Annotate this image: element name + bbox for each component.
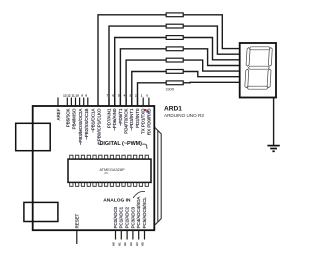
svg-text:~PD3/INT1: ~PD3/INT1 (129, 108, 134, 130)
Arduino ARD1 body (33, 106, 155, 230)
TX RX arrow marks (144, 109, 147, 111)
wire: resistor R5 to 7-seg display pin 5 (183, 60, 240, 71)
7-segment display box (240, 43, 276, 98)
power jack outline (24, 202, 58, 221)
wire: resistor R2 to 7-seg display pin 2 (183, 26, 240, 54)
RESET pin stub (76, 230, 78, 244)
wire: resistor R4 to 7-seg display pin 4 (183, 49, 240, 66)
svg-text:A0: A0 (112, 242, 116, 246)
svg-text:A5: A5 (141, 242, 145, 246)
svg-text:TX PD1/TXD: TX PD1/TXD (141, 109, 146, 134)
microcontroller IC body (68, 159, 151, 182)
svg-text:~PD6/AIN0: ~PD6/AIN0 (112, 108, 117, 131)
svg-text:~PB1/OC1A: ~PB1/OC1A (91, 109, 96, 133)
svg-text:ARDUINO UNO R3: ARDUINO UNO R3 (164, 113, 204, 118)
svg-text:~PD5/T1: ~PD5/T1 (118, 108, 123, 126)
svg-text:PC2/ADC2: PC2/ADC2 (125, 206, 130, 228)
svg-text:330R: 330R (166, 87, 175, 91)
resistor R6 330R (166, 70, 183, 74)
svg-text:ARD1: ARD1 (164, 105, 182, 112)
IC pin teeth top (70, 155, 149, 159)
svg-text:PD2/INT0: PD2/INT0 (135, 108, 140, 128)
analog pin numbers A0..A5 (112, 242, 145, 246)
7-seg segment b (top-right) (268, 48, 272, 67)
svg-text:A1: A1 (117, 242, 121, 246)
svg-text:PC5/ADC5/SCL: PC5/ADC5/SCL (142, 197, 147, 229)
top header pin stubs: 7..0 (109, 98, 149, 107)
resistor R5 330R (166, 58, 183, 62)
resistor R7 330R (166, 81, 183, 85)
svg-text:PB4/MISO: PB4/MISO (72, 108, 77, 129)
svg-text:A3: A3 (129, 242, 133, 246)
wire: Arduino digital pin to resistor R5 (126, 60, 166, 106)
wire: display common cathode to ground (273, 98, 275, 146)
svg-text:~PB2/SS/OC1B: ~PB2/SS/OC1B (84, 109, 89, 140)
top pin name labels (56, 108, 151, 145)
svg-text:-PU: -PU (104, 171, 109, 175)
Arduino board outline edge (right) (155, 127, 162, 225)
svg-text:A2: A2 (123, 242, 127, 246)
analog brace mark (133, 192, 145, 199)
svg-text:AREF: AREF (56, 108, 61, 120)
resistor R1 330R (166, 13, 183, 17)
svg-text:10: 10 (75, 93, 79, 97)
top pin numbers 7..0 (107, 93, 149, 97)
wire: resistor R1 to 7-seg display pin 1 (183, 15, 240, 49)
7-seg segment g (middle) (248, 66, 269, 69)
svg-text:12: 12 (67, 93, 71, 97)
7-seg segment e (bottom-left) (245, 69, 249, 88)
wire: Arduino digital pin to resistor R7 (138, 83, 167, 106)
wire: Arduino digital pin to resistor R1 (98, 15, 166, 106)
brace left end (98, 142, 101, 145)
resistor R3 330R (166, 36, 183, 40)
svg-text:A4: A4 (135, 242, 139, 246)
svg-text:PC1/ADC1: PC1/ADC1 (119, 206, 124, 228)
wire: Arduino digital pin to resistor R3 (115, 38, 167, 107)
wire: resistor R7 to 7-seg display pin 7 (183, 81, 240, 84)
wire: Arduino digital pin to resistor R6 (132, 72, 166, 107)
svg-text:PC3/ADC3: PC3/ADC3 (130, 206, 135, 228)
svg-text:RESET: RESET (74, 213, 79, 228)
7-seg segment c (bottom-right) (267, 69, 271, 88)
7-seg segment a (top) (249, 47, 270, 50)
svg-text:PC4/ADC4/SDA: PC4/ADC4/SDA (136, 197, 141, 229)
wire: Arduino digital pin to resistor R4 (120, 49, 166, 106)
wire: resistor R3 to 7-seg display pin 3 (183, 38, 240, 60)
svg-text:PD7/AIN1: PD7/AIN1 (106, 108, 111, 128)
analog pin stubs A0..A5 + aux (116, 230, 145, 239)
wire: Arduino digital pin to resistor R2 (109, 26, 166, 106)
7-seg segment d (bottom) (247, 86, 268, 89)
7-seg segment f (top-left) (246, 48, 250, 67)
USB connector outline (16, 123, 51, 150)
resistor R4 330R (166, 47, 183, 51)
ground symbol (267, 145, 279, 147)
svg-text:DIGITAL (~PWM): DIGITAL (~PWM) (100, 141, 143, 147)
analog pin labels PC0..PC5 (113, 197, 147, 229)
brace right end (142, 144, 147, 149)
IC pin teeth bottom (70, 182, 149, 186)
top header pin stubs: AREF and 13..8 (58, 98, 88, 107)
svg-text:PB0/ICP1/CLKO: PB0/ICP1/CLKO (97, 108, 102, 141)
wire: resistor R6 to 7-seg display pin 6 (183, 72, 240, 77)
svg-text:~PB3/MOSI/OC2A: ~PB3/MOSI/OC2A (78, 109, 83, 146)
svg-text:PD4/T0/XCK: PD4/T0/XCK (124, 109, 129, 134)
resistor R2 330R (166, 24, 183, 28)
svg-text:PC0/ADC0: PC0/ADC0 (113, 206, 118, 228)
top pin numbers 13..8 (63, 93, 87, 97)
svg-text:PB5/SCK: PB5/SCK (65, 109, 70, 128)
svg-text:ANALOG IN: ANALOG IN (103, 197, 131, 203)
